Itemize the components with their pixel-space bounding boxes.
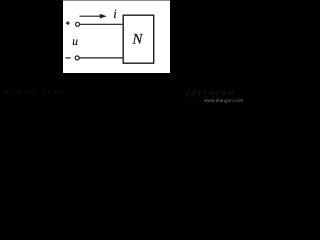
white schematic panel — [63, 0, 170, 73]
bottom terminal circle — [75, 56, 79, 60]
plus sign — [66, 22, 70, 24]
watermark url — [204, 98, 244, 103]
wire top terminal to box — [80, 23, 123, 25]
faint watermark site name — [185, 88, 236, 97]
svg-text:u: u — [72, 36, 78, 48]
faint watermark row — [4, 89, 66, 96]
svg-text:N: N — [131, 31, 143, 47]
svg-text:i: i — [113, 7, 117, 21]
top terminal circle — [76, 22, 80, 26]
network box N — [123, 15, 154, 63]
minus sign — [65, 57, 70, 59]
wire bottom terminal to box — [80, 57, 124, 59]
current arrow — [80, 15, 102, 17]
